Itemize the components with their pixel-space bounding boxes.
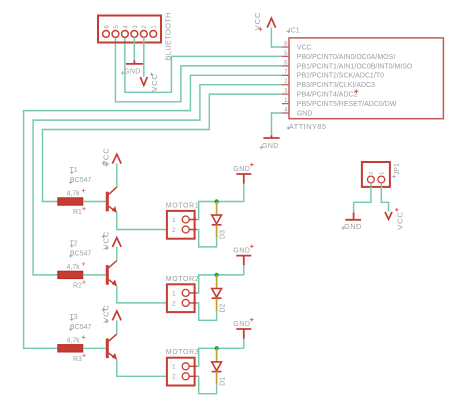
svg-text:PB0/PCINT0/AIN0/OC0A/MOSI: PB0/PCINT0/AIN0/OC0A/MOSI <box>297 54 395 61</box>
wire emitter of T1 to MOTOR1 <box>117 212 167 229</box>
label 4,7k of R2 <box>67 262 86 271</box>
svg-text:GND: GND <box>233 166 250 173</box>
svg-text:VCC: VCC <box>102 304 111 323</box>
motor MOTOR3 pin 2 pad <box>182 373 189 380</box>
diode D3 symbol <box>212 215 222 224</box>
svg-text:GND: GND <box>233 247 250 254</box>
svg-text:GND: GND <box>344 222 362 231</box>
motor MOTOR1 pin stubs <box>189 220 196 230</box>
ground GND at MOTOR2 <box>233 245 253 266</box>
label JP1 <box>392 163 401 178</box>
junction node at diode D3 anode <box>214 199 218 203</box>
power VCC symbol (up arrow) at T2 <box>102 231 122 250</box>
wire emitter of T3 to MOTOR3 <box>117 359 167 376</box>
svg-text:R2: R2 <box>73 283 82 290</box>
resistor R1 4.7k <box>58 198 83 205</box>
svg-text:4,7k: 4,7k <box>67 264 81 271</box>
svg-text:GND: GND <box>297 110 313 117</box>
JP1 pin 2 pad <box>368 176 375 183</box>
svg-text:2: 2 <box>172 300 176 307</box>
label T3 <box>70 314 78 321</box>
wire BLUETOOTH pin2 to VCC <box>143 37 145 77</box>
op-amp U1 : IC1 ATTINY85 body <box>289 38 443 119</box>
svg-text:MOTOR3: MOTOR3 <box>166 349 199 356</box>
svg-text:R1: R1 <box>73 209 82 216</box>
motor MOTOR3 pin 1 pad <box>182 363 189 370</box>
power VCC symbol (up arrow) at T3 <box>102 304 122 323</box>
svg-text:ATTINY85: ATTINY85 <box>289 122 327 131</box>
JP1 pin 1 pad <box>378 176 385 183</box>
motor MOTOR1 pin 1 pad <box>182 216 189 223</box>
ground GND below IC <box>259 135 279 150</box>
svg-text:MOTOR2: MOTOR2 <box>166 276 199 283</box>
BLUETOOTH pin 3 pad <box>131 31 138 38</box>
transistor T3 BC547 base bar <box>106 339 109 359</box>
power VCC symbol (down arrow) at BLUETOOTH <box>140 73 159 92</box>
IC1 pin 1 stub <box>282 103 289 105</box>
wire R1 to base of T1 <box>83 201 106 203</box>
wire ground rail to GND symbol <box>243 265 245 275</box>
svg-text:PB1/PCINT1/AIN1/OC0B/INT0/MISO: PB1/PCINT1/AIN1/OC0B/INT0/MISO <box>297 63 413 70</box>
motor MOTOR3 body <box>167 358 195 386</box>
junction node at diode D1 anode <box>214 346 218 350</box>
wire R2 to base of T2 <box>83 274 106 276</box>
svg-text:D3: D3 <box>219 230 226 239</box>
svg-text:2: 2 <box>369 172 375 175</box>
label BC547 of T1 <box>69 177 92 184</box>
BLUETOOTH pin 4 pad <box>122 31 129 38</box>
IC1 pin 5 stub <box>282 55 289 57</box>
ground GND at MOTOR3 <box>233 318 253 339</box>
svg-text:BC547: BC547 <box>70 177 92 184</box>
wire collector of T1 to VCC <box>116 164 118 188</box>
ground GND at MOTOR1 <box>233 163 253 184</box>
svg-text:IC1: IC1 <box>289 27 300 34</box>
svg-text:PB2/PCINT2/SCK/ADC1/T0: PB2/PCINT2/SCK/ADC1/T0 <box>297 73 384 80</box>
wire IC pin8 to VCC <box>271 28 282 47</box>
IC1 pin 7 stub <box>282 74 289 76</box>
wire net BLUETOOTH pin5 to IC pin6 PB1 <box>115 37 282 102</box>
wire emitter of T2 to MOTOR2 <box>117 286 167 303</box>
svg-text:GND: GND <box>233 321 250 328</box>
transistor T2 BC547 base bar <box>106 265 109 285</box>
label BC547 of T3 <box>69 324 92 331</box>
transistor T3 emitter with arrow <box>109 353 117 359</box>
svg-text:4,7k: 4,7k <box>67 338 81 345</box>
wire MOTOR3 pin1 to ground rail <box>197 348 244 366</box>
ground GND at BLUETOOTH <box>121 60 144 75</box>
svg-text:VCC: VCC <box>396 211 405 230</box>
BLUETOOTH pin 1 pad <box>150 31 157 38</box>
IC1 pin 2 stub <box>282 84 289 86</box>
wire collector of T2 to VCC <box>116 247 118 261</box>
motor MOTOR2 body <box>167 284 195 312</box>
label IC1 <box>286 27 299 34</box>
svg-text:BC547: BC547 <box>70 250 92 257</box>
wire collector of T3 to VCC <box>116 320 118 334</box>
IC1 pin 8 stub <box>282 46 289 48</box>
svg-text:VCC: VCC <box>102 231 111 250</box>
transistor T2 emitter with arrow <box>109 280 117 286</box>
power VCC symbol (down arrow) at JP1 <box>385 208 405 230</box>
diode D1 symbol <box>212 362 222 371</box>
transistor T2 collector <box>109 261 117 268</box>
motor MOTOR2 pin 2 pad <box>182 299 189 306</box>
ground GND at JP1 <box>341 213 362 231</box>
wire ground rail to GND symbol <box>243 184 245 202</box>
label BC547 of T2 <box>69 250 92 257</box>
svg-text:1: 1 <box>172 290 176 297</box>
svg-text:MOTOR1: MOTOR1 <box>166 202 199 209</box>
diode D2 bottom lead <box>216 298 218 311</box>
svg-text:PB3/PCINT3/CLKI/ADC3: PB3/PCINT3/CLKI/ADC3 <box>297 82 375 89</box>
svg-text:PB4/PCINT4/ADC2: PB4/PCINT4/ADC2 <box>297 92 358 99</box>
junction node at diode D2 anode <box>214 273 218 277</box>
diode D3 top lead <box>216 202 218 216</box>
wire JP1 pin1 to VCC <box>381 183 388 212</box>
resistor R2 4.7k <box>58 271 83 278</box>
wire net from IC pin2 PB3 to R2 <box>33 85 282 275</box>
BLUETOOTH pin 6 pad <box>103 31 110 38</box>
IC1 pin 6 stub <box>282 65 289 67</box>
svg-text:R3: R3 <box>73 356 82 363</box>
label T2 <box>70 240 78 247</box>
wire diode D2 cathode loop to MOTOR2 pin2 <box>197 303 217 320</box>
origin cross of T3 <box>102 308 106 312</box>
svg-text:4,7k: 4,7k <box>67 191 81 198</box>
wire diode D1 cathode loop to MOTOR3 pin2 <box>197 376 217 393</box>
IC1 pin 3 stub <box>282 93 289 95</box>
net marker on ADC2 <box>354 89 358 93</box>
svg-text:BC547: BC547 <box>70 324 92 331</box>
BLUETOOTH pin 2 pad <box>140 31 147 38</box>
svg-text:1: 1 <box>172 364 176 371</box>
svg-text:JP1: JP1 <box>394 163 401 175</box>
svg-text:T3: T3 <box>70 314 78 321</box>
svg-text:2: 2 <box>172 227 176 234</box>
label R2 <box>73 280 86 289</box>
svg-text:1: 1 <box>379 172 385 175</box>
wire net from IC pin3 PB4 to R1 <box>43 94 283 201</box>
wire net BLUETOOTH pin4 to IC pin5 PB0 <box>125 37 282 92</box>
transistor T1 BC547 base bar <box>106 192 109 212</box>
power VCC symbol (up arrow) at IC pin8 <box>253 12 276 31</box>
svg-text:2: 2 <box>172 374 176 381</box>
svg-text:GND: GND <box>262 143 279 150</box>
diode D3 bottom lead <box>216 225 218 238</box>
label R1 <box>73 207 86 216</box>
svg-text:VCC: VCC <box>297 44 312 51</box>
wire MOTOR1 pin1 to ground rail <box>197 202 244 220</box>
transistor T3 collector <box>109 334 117 341</box>
svg-text:BLUETOOTH: BLUETOOTH <box>164 12 173 60</box>
wire diode D3 cathode loop to MOTOR1 pin2 <box>197 230 217 247</box>
label 4,7k of R1 <box>67 189 86 198</box>
wire MOTOR2 pin1 to ground rail <box>197 275 244 293</box>
svg-text:T2: T2 <box>70 240 78 247</box>
wire net from IC pin7 PB2 to R3 <box>24 75 282 348</box>
wire BLUETOOTH pin3 to ground <box>133 37 135 60</box>
motor MOTOR1 body <box>167 211 195 239</box>
wire IC pin4 to ground <box>272 113 283 135</box>
motor MOTOR2 pin stubs <box>189 293 196 303</box>
svg-text:T1: T1 <box>70 167 78 174</box>
svg-text:1: 1 <box>172 217 176 224</box>
svg-text:GND: GND <box>124 69 141 76</box>
label T1 <box>70 167 78 174</box>
resistor R3 4.7k <box>58 345 83 352</box>
motor MOTOR3 pin stubs <box>189 366 196 376</box>
wire R3 to base of T3 <box>83 347 106 349</box>
motor MOTOR2 pin 1 pad <box>182 289 189 296</box>
connector BLUETOOTH 6-pin header <box>98 16 161 43</box>
wire ground rail to GND symbol <box>243 339 245 349</box>
svg-text:D1: D1 <box>219 377 226 386</box>
diode D2 top lead <box>216 275 218 289</box>
origin cross of T1 <box>102 161 106 165</box>
motor MOTOR1 pin 2 pad <box>182 226 189 233</box>
label 4,7k of R3 <box>67 336 86 345</box>
svg-text:D2: D2 <box>219 303 226 312</box>
diode D2 symbol <box>212 289 222 298</box>
svg-text:PB5/PCINT5/RESET/ADC0/DW: PB5/PCINT5/RESET/ADC0/DW <box>297 101 397 108</box>
transistor T1 emitter with arrow <box>109 206 117 212</box>
connector JP1 body <box>362 162 390 187</box>
wire JP1 pin2 to ground <box>354 183 371 213</box>
transistor T1 collector <box>109 187 117 194</box>
IC1 pin 4 stub <box>282 112 289 114</box>
label R3 <box>73 354 86 363</box>
diode D1 top lead <box>216 348 218 362</box>
power VCC symbol (up arrow) at T1 <box>102 147 122 166</box>
BLUETOOTH pin 5 pad <box>112 31 119 38</box>
diode D1 bottom lead <box>216 372 218 385</box>
origin cross of T2 <box>102 234 106 238</box>
svg-text:VCC: VCC <box>102 147 111 166</box>
label ATTINY85 <box>286 122 326 131</box>
